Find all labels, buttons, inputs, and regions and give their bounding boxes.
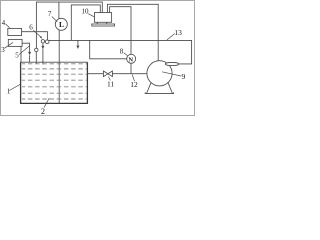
leader 13: [167, 34, 175, 40]
flowmeter U7 circle L: [55, 18, 67, 30]
wire sensor leg with probe circle: [35, 32, 37, 48]
leader 8: [124, 53, 128, 56]
suction pipe: [87, 73, 146, 75]
tank walls: [20, 62, 88, 103]
wire drop to valve line: [90, 40, 127, 58]
arrowhead box3 pipe: [28, 52, 31, 55]
liquid hatching: [22, 64, 87, 99]
pump discharge ellipse: [165, 62, 178, 65]
pump 9 body: [147, 61, 172, 86]
svg-text:L: L: [59, 20, 64, 29]
svg-text:3: 3: [1, 46, 5, 54]
svg-text:6: 6: [29, 24, 33, 32]
arrowhead branch: [76, 46, 79, 49]
leader 11: [109, 77, 111, 81]
wire bus A top: [36, 2, 102, 31]
box 4: [8, 28, 22, 35]
device 10 feet: [96, 22, 98, 24]
svg-text:5: 5: [15, 51, 19, 59]
device 10 monitor box: [95, 13, 112, 23]
svg-text:N: N: [128, 56, 133, 63]
leader 10: [88, 14, 95, 17]
wire sensor leg lower: [35, 52, 37, 64]
valve U8 circle N: [127, 54, 136, 63]
svg-text:2: 2: [41, 107, 45, 116]
leader 9: [162, 72, 181, 76]
svg-text:13: 13: [174, 28, 182, 37]
leader 12: [132, 75, 134, 82]
wire box4 output: [22, 32, 48, 40]
wire bus2 to valve 8: [110, 7, 131, 55]
svg-text:12: 12: [130, 80, 138, 89]
wire link circles: [44, 41, 47, 43]
wire below arrow: [42, 49, 44, 65]
wire L dip tube: [58, 30, 60, 103]
nozzle circle left: [41, 40, 44, 43]
svg-text:4: 4: [2, 19, 6, 27]
svg-text:9: 9: [182, 72, 186, 81]
svg-text:7: 7: [48, 10, 52, 18]
tank top line: [20, 61, 87, 63]
wire box3 bottom to tank: [20, 46, 22, 62]
valve 11 bowtie: [103, 71, 112, 77]
leader 2: [44, 98, 49, 108]
wire bus1 to pump: [107, 4, 158, 61]
border frame: [1, 1, 195, 116]
branch arrow stub: [77, 40, 79, 46]
pump legs: [147, 83, 151, 94]
device 10 base slab: [92, 24, 115, 26]
leader 1: [9, 84, 21, 91]
svg-text:1: 1: [7, 88, 11, 96]
pipe 13 long horizontal: [49, 40, 192, 64]
svg-text:11: 11: [107, 80, 114, 89]
sensor circle: [35, 48, 38, 51]
arrowhead leader6: [40, 36, 42, 39]
box 3: [8, 39, 22, 46]
wire L top stub: [58, 2, 60, 19]
wire nozzle down: [42, 43, 44, 46]
wire box3 output: [22, 43, 30, 52]
leader 3: [5, 42, 13, 48]
svg-text:10: 10: [82, 8, 90, 16]
arrow into tank from box4 pipe: [41, 46, 44, 50]
leader 6: [33, 30, 41, 37]
leader 7: [52, 17, 58, 22]
pump base: [145, 92, 173, 93]
wire riser to bus B: [71, 5, 100, 41]
svg-text:8: 8: [120, 48, 124, 56]
wire valve8 bottom stub: [130, 63, 132, 73]
leader 5: [19, 46, 30, 55]
wire pipeB lower: [29, 55, 31, 62]
leader lines: [5, 14, 181, 108]
leader 4: [6, 24, 10, 28]
nozzle circle right: [45, 40, 49, 44]
